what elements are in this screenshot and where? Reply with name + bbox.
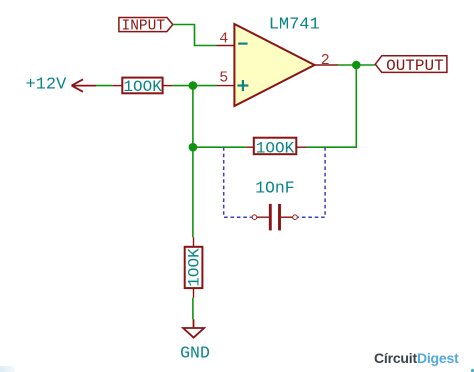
svg-text:1OOK: 1OOK [186, 248, 204, 287]
op-amp minus input mark [238, 42, 247, 44]
svg-text:1OOK: 1OOK [123, 78, 162, 96]
capacitor C1 pin circles [252, 215, 257, 220]
resistor R3 body [185, 247, 203, 288]
global label INPUT [119, 18, 173, 35]
corner watermark fragment [0, 366, 15, 372]
global label OUTPUT [375, 56, 447, 75]
junction A [189, 81, 198, 90]
wire output to OUTPUT label [338, 64, 375, 66]
op-amp U1 pin 2 (output) [315, 64, 339, 66]
junction B [189, 143, 198, 152]
wire junction A down to junction B [192, 86, 194, 148]
op-amp U1 pin 4 [217, 45, 235, 47]
capacitor C1 plates [269, 204, 272, 231]
wire junction B down to R3 [192, 147, 194, 237]
wire R3 to GND [192, 298, 194, 319]
resistor R2 body [254, 138, 296, 155]
junction at output [352, 61, 361, 70]
wire +12V to R1 [96, 85, 112, 87]
resistor R1 pins [112, 85, 122, 87]
wire R1 to pin 5 [173, 85, 217, 87]
svg-text:GND: GND [180, 344, 210, 363]
CircuitDigest logo [374, 350, 459, 366]
op-amp plus input mark [237, 80, 248, 91]
power symbol +12V arrow [72, 79, 96, 92]
corner dot bottom right [471, 369, 474, 372]
svg-text:OUTPUT: OUTPUT [386, 57, 444, 75]
svg-text:INPUT: INPUT [122, 19, 166, 35]
svg-text:2: 2 [321, 52, 330, 69]
svg-text:1OOK: 1OOK [256, 140, 295, 158]
op-amp U1 body [234, 24, 314, 106]
feedback wire left segment [193, 146, 246, 148]
resistor R2 pins [246, 146, 254, 148]
op-amp U1 pin 5 [217, 85, 235, 87]
capacitor C1 leads [257, 216, 269, 218]
feedback wire right segment and riser [307, 65, 357, 147]
resistor R3 pins [193, 237, 195, 247]
wire from INPUT to pin 4 [173, 25, 217, 46]
svg-text:1OnF: 1OnF [255, 179, 295, 198]
svg-text:4: 4 [219, 30, 228, 47]
dashed net tie left [224, 147, 252, 217]
svg-text:LM741: LM741 [269, 15, 320, 34]
ground symbol [183, 319, 204, 337]
svg-text:+12V: +12V [25, 76, 67, 95]
dashed net tie right [298, 147, 325, 217]
svg-text:5: 5 [219, 70, 228, 87]
resistor R1 body [122, 78, 162, 94]
